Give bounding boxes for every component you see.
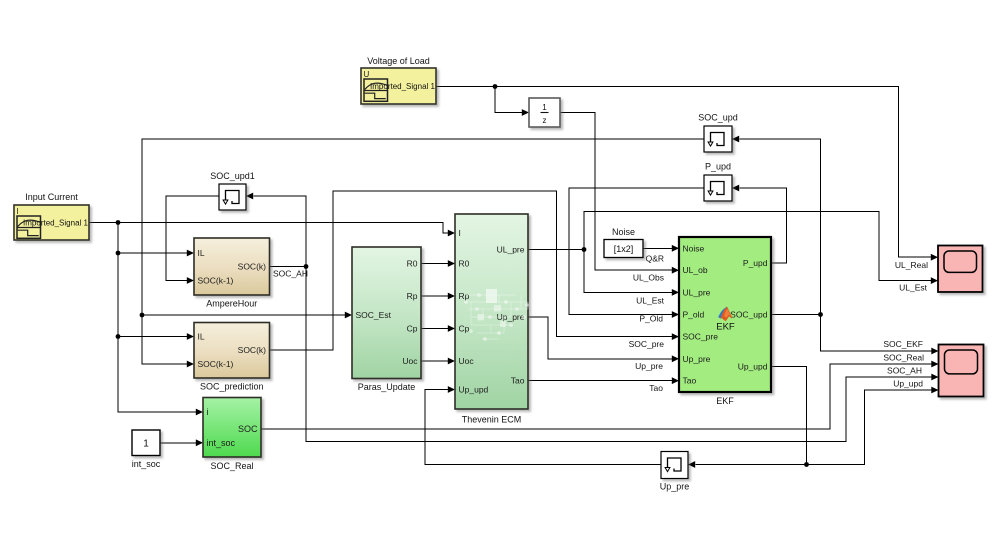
svg-text:P_upd: P_upd (743, 258, 768, 268)
label Paras_Update (358, 382, 416, 392)
junction SOC_upd (818, 312, 823, 317)
wire EKF Up_upd to junction, net Up_upd (771, 366, 807, 464)
block Scope1 (UL scope) (938, 246, 983, 293)
svg-text:AmpereHour: AmpereHour (206, 299, 257, 309)
svg-text:Up_pre: Up_pre (635, 361, 663, 371)
value label UL_Est (899, 283, 928, 293)
wire SOC_upd1 output to AmpereHour SOC(k-1) (166, 196, 219, 284)
svg-text:P_old: P_old (683, 310, 705, 320)
svg-text:SOC_upd: SOC_upd (730, 310, 768, 320)
value label SOC_AH (273, 269, 308, 279)
svg-text:SOC_upd: SOC_upd (698, 113, 738, 123)
block AmpereHour (subsystem) (194, 238, 270, 295)
svg-text:SOC_AH: SOC_AH (273, 269, 308, 279)
svg-text:Up_pre: Up_pre (683, 354, 711, 364)
svg-text:Noise: Noise (612, 227, 635, 237)
svg-text:1: 1 (143, 439, 149, 450)
svg-text:EKF: EKF (716, 322, 735, 333)
wire branch to SOC_prediction IL (118, 253, 194, 340)
label Noise (612, 227, 635, 237)
wire Paras Rp to Thevenin Rp (421, 293, 455, 300)
wire Up_pre memory output to Thevenin Up_upd (425, 386, 661, 464)
svg-text:Input Current: Input Current (25, 192, 78, 202)
value label P_Old (639, 314, 663, 324)
wire UL_pre to Scope1 port2, net UL_Est (584, 212, 938, 285)
label Input Current (25, 192, 78, 202)
svg-text:R0: R0 (459, 259, 470, 269)
block Thevenin ECM (subsystem with ghost circuit preview) (455, 214, 529, 409)
wire SOC_prediction SOC(k) to EKF SOC_pre (270, 191, 680, 350)
svg-text:Cp: Cp (459, 324, 470, 334)
wire SOC_AH down and right to Scope2 port3 (306, 267, 939, 442)
junction input-current branch 3 (116, 334, 121, 339)
value label UL_Real (895, 260, 928, 270)
block Noise (constant [1x2]) (604, 240, 643, 258)
label EKF (716, 396, 734, 406)
wire Thevenin UL_pre to junction (528, 249, 584, 251)
value label UL_Obs (633, 273, 664, 283)
svg-text:SOC_AH: SOC_AH (887, 366, 922, 376)
svg-text:SOC_prediction: SOC_prediction (200, 382, 264, 392)
value label Q&amp;R (646, 254, 664, 264)
value label Tao (649, 383, 663, 393)
svg-text:I: I (17, 207, 19, 216)
wire branch to SOC_Real i (118, 337, 203, 416)
junction SOC_AH (304, 264, 309, 269)
label SOC_upd (698, 113, 738, 123)
junction UL_pre (582, 247, 587, 252)
svg-text:P_Old: P_Old (639, 314, 663, 324)
junction Up_upd (804, 462, 809, 467)
block Scope2 (SOC scope) (939, 345, 984, 397)
wire Up_upd to Scope2 port4 (807, 387, 939, 465)
wire Paras Cp to Thevenin Cp (421, 325, 455, 332)
wire EKF SOC_upd to junction (771, 314, 821, 316)
wire P_upd memory output to EKF P_old, net P_Old (569, 188, 704, 318)
svg-text:SOC: SOC (238, 424, 258, 434)
svg-text:U: U (364, 70, 370, 79)
block int_soc (constant 1) (132, 430, 160, 456)
svg-text:SOC_Real: SOC_Real (883, 353, 924, 363)
svg-text:Rp: Rp (407, 291, 418, 301)
svg-text:1: 1 (542, 103, 547, 112)
wire Paras Uoc to Thevenin Uoc (421, 358, 455, 365)
wire SOC_Real SOC to Scope2 port2, net SOC_Real (261, 361, 939, 429)
svg-text:Up_upd: Up_upd (738, 361, 768, 371)
junction SOC_Est branch (140, 313, 145, 318)
label SOC_Real (210, 461, 253, 471)
svg-text:Imported_Signal 1: Imported_Signal 1 (370, 82, 435, 91)
block Unit Delay 1/z (529, 98, 560, 127)
svg-text:Paras_Update: Paras_Update (358, 382, 416, 392)
svg-text:P_upd: P_upd (705, 162, 731, 172)
wire Voltage of Load to Scope1 port1, net UL_Real (436, 87, 938, 261)
label SOC_prediction (200, 382, 264, 392)
svg-text:UL_ob: UL_ob (683, 265, 708, 275)
svg-text:UL_Est: UL_Est (636, 296, 665, 306)
svg-text:SOC_pre: SOC_pre (683, 332, 719, 342)
value label SOC_Real (883, 353, 924, 363)
wire Thevenin Up_pre to EKF Up_pre (528, 317, 679, 362)
block SOC_prediction (subsystem) (194, 323, 270, 379)
block Voltage of Load (source Imported_Signal 1) (361, 68, 436, 104)
svg-text:SOC_Real: SOC_Real (210, 461, 253, 471)
svg-text:int_soc: int_soc (207, 438, 236, 448)
svg-text:SOC(k): SOC(k) (238, 345, 267, 355)
svg-text:Noise: Noise (683, 243, 705, 253)
wire branch to AmpereHour IL (118, 223, 194, 257)
label Voltage of Load (367, 56, 430, 66)
value label SOC_pre (629, 339, 665, 349)
svg-text:int_soc: int_soc (132, 459, 161, 469)
svg-text:Uoc: Uoc (402, 356, 418, 366)
wire Thevenin Tao to EKF Tao (528, 377, 679, 384)
block Paras_Update (subsystem) (352, 247, 421, 379)
svg-text:Uoc: Uoc (459, 356, 475, 366)
wire Paras R0 to Thevenin R0 (421, 260, 455, 267)
svg-text:SOC(k): SOC(k) (238, 262, 267, 272)
svg-text:IL: IL (198, 248, 205, 258)
value label Up_upd (893, 379, 923, 389)
block SOC_upd (memory) (704, 126, 732, 152)
junction input-current branch 2 (116, 251, 121, 256)
value label UL_Est (636, 296, 665, 306)
svg-text:Up_upd: Up_upd (893, 379, 923, 389)
svg-text:z: z (543, 116, 547, 125)
svg-text:Rp: Rp (459, 291, 470, 301)
svg-text:SOC_pre: SOC_pre (629, 339, 665, 349)
svg-text:SOC(k-1): SOC(k-1) (198, 359, 234, 369)
svg-text:UL_pre: UL_pre (497, 245, 525, 255)
svg-text:Voltage of Load: Voltage of Load (367, 56, 430, 66)
block SOC_upd1 (memory) (219, 184, 246, 210)
label Thevenin ECM (462, 415, 522, 425)
block Input Current (source Imported_Signal 1) (14, 205, 89, 240)
block Up_pre (memory) (661, 452, 688, 479)
value label SOC_EKF (883, 339, 923, 349)
svg-text:UL_pre: UL_pre (683, 287, 711, 297)
wire Input Current to Thevenin I (89, 223, 455, 237)
wire SOC_upd down to Scope2 port1, net SOC_EKF (821, 315, 939, 355)
wire SOC_upd up to SOC_upd memory input (732, 136, 821, 315)
svg-text:Tao: Tao (511, 376, 525, 386)
junction voltage branch (493, 84, 498, 89)
label P_upd (705, 162, 731, 172)
junction input-current branch 1 (116, 220, 121, 225)
svg-text:i: i (207, 407, 209, 417)
block EKF (MATLAB Function) (679, 237, 771, 392)
label Up_pre (660, 482, 690, 492)
svg-text:Q&R: Q&R (646, 254, 664, 264)
svg-text:Imported_Signal 1: Imported_Signal 1 (23, 219, 88, 228)
wire UL_pre to EKF UL_pre, net UL_Est (584, 250, 679, 296)
svg-text:Tao: Tao (649, 383, 663, 393)
wire branch to Unit Delay 1/z (495, 87, 529, 116)
svg-text:UL_Est: UL_Est (899, 283, 928, 293)
label AmpereHour (206, 299, 257, 309)
label SOC_upd1 (210, 171, 255, 181)
wire 1/z output to EKF UL_ob, net UL_Obs (560, 113, 679, 274)
wire SOC_upd output to Paras_Update SOC_Est (142, 139, 704, 318)
wire branch to SOC_prediction SOC(k-1) (142, 315, 194, 367)
wire Noise constant to EKF Noise, net Q&R (643, 245, 679, 252)
wire Up_upd left to Up_pre memory input (688, 461, 807, 468)
block P_upd (memory) (704, 175, 732, 201)
wire int_soc constant to SOC_Real int_soc (160, 439, 203, 446)
label int_soc (132, 459, 161, 469)
svg-text:Up_pre: Up_pre (660, 482, 690, 492)
svg-text:EKF: EKF (716, 396, 734, 406)
svg-text:Up_upd: Up_upd (459, 385, 489, 395)
svg-text:IL: IL (198, 332, 205, 342)
svg-text:SOC_upd1: SOC_upd1 (210, 171, 255, 181)
value label SOC_AH (887, 366, 922, 376)
svg-text:Tao: Tao (683, 376, 697, 386)
svg-text:UL_Obs: UL_Obs (633, 273, 664, 283)
svg-text:Thevenin ECM: Thevenin ECM (462, 415, 522, 425)
value label Up_pre (635, 361, 663, 371)
wire SOC_AH up to SOC_upd1 input (246, 193, 306, 267)
wire AmpereHour SOC(k) to junction, net SOC_AH (270, 266, 307, 268)
svg-text:Cp: Cp (407, 324, 418, 334)
svg-text:UL_Real: UL_Real (895, 260, 928, 270)
svg-text:SOC_EKF: SOC_EKF (883, 339, 923, 349)
svg-text:[1x2]: [1x2] (614, 244, 634, 254)
wire EKF P_upd to P_upd memory input (732, 185, 787, 263)
svg-text:R0: R0 (407, 259, 418, 269)
block SOC_Real (subsystem) (203, 398, 261, 458)
svg-text:SOC(k-1): SOC(k-1) (198, 276, 234, 286)
svg-text:I: I (459, 228, 461, 238)
svg-text:SOC_Est: SOC_Est (356, 310, 392, 320)
